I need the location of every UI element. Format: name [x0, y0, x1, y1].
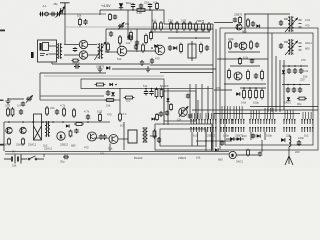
resistor R5 — [160, 21, 163, 31]
svg-text:10k: 10k — [100, 151, 105, 155]
wire stage3 emitters — [224, 83, 266, 85]
resistor R28 — [261, 89, 264, 100]
capacitor C42 — [287, 68, 291, 74]
wire x137 — [136, 29, 138, 52]
resistor R49 — [63, 107, 66, 117]
wire Q1 base — [119, 43, 121, 46]
shield box det — [164, 91, 196, 121]
svg-text:100p: 100p — [223, 133, 229, 137]
capacitor C25 — [297, 140, 301, 146]
power switch SW1 — [28, 156, 44, 160]
band switch S1 wafer 2 — [204, 119, 216, 132]
capacitor C35 — [55, 109, 59, 115]
wire band bus v1 — [271, 33, 273, 112]
resistor R34 — [105, 99, 116, 102]
wire left frame v — [3, 122, 5, 151]
diode D12 — [111, 92, 115, 96]
wire wafer4 drop 2 — [238, 106, 240, 119]
selector lamp B3 — [229, 151, 236, 158]
resistor R6 — [170, 21, 173, 31]
diode D13 — [66, 124, 69, 127]
svg-text:0.05: 0.05 — [5, 103, 11, 107]
wire band bus h3 — [250, 106, 318, 108]
transistor Q2 — [155, 45, 165, 55]
resistor R10 — [180, 43, 183, 54]
wire wafer8 drop 2 — [307, 112, 309, 119]
capacitor C47 — [298, 87, 302, 93]
wire dropper v2 — [201, 84, 203, 119]
resistor R10b — [200, 43, 203, 54]
svg-text:0.0: 0.0 — [17, 103, 21, 107]
transistor Q10 — [88, 132, 97, 141]
capacitor C22 — [254, 73, 258, 79]
transistor Q4 — [79, 51, 87, 59]
resistor R9 — [189, 21, 192, 31]
resistor R36 — [155, 88, 158, 99]
band switch S1 wafer 8 — [301, 119, 313, 132]
resistor R46 — [7, 107, 10, 117]
transistor Q11 — [109, 135, 118, 144]
wire dropper v4 — [197, 100, 199, 119]
diode D3 — [173, 46, 177, 50]
junction m3 — [151, 88, 153, 90]
capacitor C5 — [131, 3, 135, 8]
svg-text:2SB75: 2SB75 — [196, 19, 205, 23]
junction m1 — [115, 84, 117, 86]
svg-text:220: 220 — [295, 150, 300, 154]
wire Q3 out — [88, 44, 97, 46]
svg-text:100p: 100p — [253, 100, 259, 104]
resistor R23 — [261, 70, 264, 81]
speaker LS1 — [38, 40, 57, 62]
junction p4c — [299, 84, 301, 86]
tap ticks T3 antenna coil — [299, 20, 302, 27]
capacitor C9 — [109, 31, 113, 37]
shield box outer — [220, 28, 318, 150]
svg-text:1k2: 1k2 — [304, 133, 309, 137]
transformer T7 — [143, 127, 148, 143]
wire bank1 down b — [196, 132, 198, 146]
capacitor C21 — [255, 42, 259, 48]
svg-text:1k2: 1k2 — [126, 98, 131, 102]
resistor R43 — [74, 123, 84, 126]
wire IF box left — [105, 29, 107, 52]
svg-text:10k: 10k — [126, 41, 131, 45]
capacitor C36 — [74, 129, 78, 134]
wire T1 to Q3 — [64, 44, 79, 46]
wire wafer7 drop 0 — [284, 110, 286, 119]
svg-text:2SB75: 2SB75 — [96, 64, 105, 68]
svg-text:2SB22: 2SB22 — [72, 61, 81, 65]
wire bank2 down b — [210, 132, 212, 151]
svg-text:10k: 10k — [196, 155, 201, 159]
capacitor C38 — [188, 114, 192, 119]
capacitor C12 — [168, 45, 172, 51]
svg-text:25p: 25p — [54, 3, 59, 6]
capacitor C48 — [258, 152, 262, 157]
transformer T8 — [45, 121, 50, 137]
band switch S1 wafer 5 — [249, 119, 261, 132]
wire wafer2 drop 0 — [205, 113, 207, 119]
svg-text:470: 470 — [155, 56, 160, 60]
resistor R12 — [202, 22, 205, 32]
ceramic filter FL2 — [128, 130, 137, 143]
junction IF 1 — [151, 47, 153, 49]
capacitor C11 — [135, 40, 139, 46]
wire IF box bottom 1 — [150, 64, 213, 66]
capacitor C45 — [286, 87, 290, 93]
svg-text:220: 220 — [242, 134, 247, 138]
svg-text:680: 680 — [71, 143, 76, 147]
wire wafer2 drop 3 — [213, 113, 215, 119]
inductor L1 — [289, 136, 291, 147]
wire shield vertical 2 — [215, 29, 217, 147]
diode D17 — [282, 70, 285, 73]
battery BT1 — [4, 155, 27, 164]
junction y141b — [211, 140, 213, 142]
wire wafer8 drop 3 — [310, 112, 312, 119]
capacitor C15 — [140, 60, 144, 66]
wire wafer2 drop 2 — [210, 113, 212, 119]
transformer T4 RF coil — [288, 39, 294, 55]
diode D16 — [166, 98, 169, 101]
svg-text:4.7k: 4.7k — [60, 103, 66, 107]
wire y73 — [40, 72, 106, 74]
resistor R26 — [249, 89, 252, 100]
svg-text:470: 470 — [301, 58, 306, 62]
wire T2 sec to Q1 — [105, 51, 118, 53]
tuning arrow C4 — [59, 7, 65, 17]
resistor R51 — [170, 103, 173, 111]
wire speaker bottom — [49, 53, 57, 55]
connector blob — [31, 52, 34, 58]
wire y88 — [164, 88, 213, 90]
wire v128 — [127, 10, 129, 40]
stage indicator 1 — [57, 132, 65, 140]
wire wafer4 drop 0 — [233, 106, 235, 119]
junction b2 — [32, 121, 34, 123]
wire Q1 collector row — [126, 50, 156, 52]
svg-text:3V: 3V — [12, 150, 16, 154]
svg-text:10k: 10k — [77, 13, 82, 17]
wire IF box bottom 3 — [160, 72, 213, 74]
junction p4a — [287, 84, 289, 86]
wire wafer1 drop 1 — [194, 113, 196, 119]
svg-text:51k: 51k — [108, 146, 113, 150]
wire v152 — [151, 10, 153, 32]
resistor R32 — [247, 149, 250, 157]
resistor R54 — [297, 97, 307, 100]
wire wafer1 drop 2 — [196, 113, 198, 119]
resistor R19 — [229, 40, 232, 50]
svg-text:4.7k: 4.7k — [84, 109, 90, 113]
wire wafer6 drop 2 — [269, 108, 271, 119]
svg-text:0.05: 0.05 — [181, 18, 187, 22]
svg-text:BG2: BG2 — [126, 1, 132, 5]
resistor R52 — [109, 13, 112, 21]
page mark left 1 — [0, 30, 5, 32]
svg-text:10k: 10k — [177, 118, 182, 122]
svg-text:8.2k: 8.2k — [303, 69, 309, 73]
svg-text:4.7: 4.7 — [153, 0, 157, 4]
resistor R14 — [72, 59, 80, 62]
wire band bus v3 — [279, 60, 281, 112]
shield box mid outer — [155, 124, 212, 150]
wire battery bus a — [5, 151, 229, 153]
wire C5 stem — [132, 8, 134, 10]
wire wafer4 drop 1 — [236, 106, 238, 119]
svg-text:1T4: 1T4 — [168, 18, 173, 22]
svg-text:BG209: BG209 — [134, 156, 143, 160]
crystal Y1 — [26, 97, 32, 101]
capacitor C26b — [21, 102, 25, 107]
arrow Q12 — [179, 107, 188, 118]
wire wafer6 drop 0 — [264, 108, 266, 119]
wire switch up — [43, 154, 45, 157]
wire Q11 down — [109, 144, 111, 152]
capacitor C12b — [205, 45, 209, 51]
wire y141 link — [196, 140, 232, 142]
svg-text:0.01: 0.01 — [305, 18, 311, 22]
transistor Q6 — [239, 42, 247, 50]
transformer T3 antenna coil — [288, 16, 294, 32]
wire band bus h2 — [214, 113, 300, 115]
svg-text:3AG1: 3AG1 — [284, 100, 291, 104]
wire +4.5V rail — [100, 10, 164, 24]
wire padder row3 top — [282, 65, 308, 67]
svg-text:+4.5V: +4.5V — [101, 4, 111, 8]
wire wafer1 drop 0 — [191, 113, 193, 119]
resistor R16 — [142, 43, 145, 53]
resistor R50 — [73, 108, 76, 118]
svg-text:51k: 51k — [12, 163, 17, 167]
wire q row link1 — [94, 137, 100, 139]
wire dropper v0 — [189, 84, 191, 119]
junction s4a — [243, 87, 245, 89]
svg-text:8.2k: 8.2k — [193, 133, 199, 137]
band switch S1 wafer 4 — [232, 119, 244, 132]
diode D1 — [119, 3, 123, 7]
wire q row link3 — [118, 138, 128, 140]
svg-text:2SB22: 2SB22 — [178, 156, 187, 160]
junction p3a — [288, 65, 290, 67]
wire v168 — [167, 88, 169, 125]
junction a1 — [64, 13, 66, 15]
arrow C8 — [118, 23, 124, 30]
wire AGC line — [65, 26, 213, 28]
resistor R45 — [156, 113, 159, 121]
resistor R11 — [195, 22, 198, 32]
transformer T1 output — [57, 43, 63, 59]
diode D4 — [106, 66, 110, 70]
wire x120 v — [119, 88, 121, 112]
ground mid — [5, 98, 10, 104]
diode D5 — [256, 24, 259, 27]
transistor Q1 — [117, 46, 127, 56]
wire y38 det — [168, 37, 210, 39]
wire wafer6 drop 1 — [267, 108, 269, 119]
resistor R53 — [79, 18, 82, 27]
svg-text:0.02: 0.02 — [97, 109, 103, 113]
svg-text:3AG1: 3AG1 — [236, 159, 243, 163]
antenna ANT1 — [60, 3, 70, 14]
junction IF 3 — [195, 37, 197, 39]
svg-text:680: 680 — [218, 157, 223, 161]
tap ticks T4 RF coil — [299, 43, 302, 50]
resistor R48 — [46, 106, 49, 116]
wire T4 RF coil top — [284, 41, 288, 43]
band switch S1 wafer 7 — [283, 119, 295, 132]
junction IF 2 — [176, 31, 178, 33]
diode D19 — [215, 148, 218, 151]
svg-text:BG209: BG209 — [160, 84, 169, 88]
junction p4b — [293, 84, 295, 86]
resistor R3 — [145, 34, 148, 45]
capacitor C17 — [134, 44, 138, 50]
resistor R7 — [176, 21, 179, 31]
wire stage3 top — [230, 65, 260, 67]
svg-text:51k: 51k — [117, 57, 122, 61]
trimmer arrow C3 — [56, 11, 62, 18]
svg-text:0.05: 0.05 — [137, 11, 143, 15]
wire input chain — [39, 13, 65, 15]
wire wafer1 drop 3 — [199, 113, 201, 119]
transistor Q9 — [20, 127, 26, 133]
junction p3c — [300, 65, 302, 67]
capacitor C33 — [63, 155, 69, 159]
resistor R37 — [160, 88, 163, 99]
wire rail left drop — [99, 10, 101, 15]
wire wafer2 drop 1 — [208, 113, 210, 119]
ground audio — [97, 66, 102, 72]
microphone/earpiece X1 — [45, 12, 49, 16]
resistor R34b — [124, 96, 135, 99]
svg-text:2SB75: 2SB75 — [234, 12, 243, 16]
wire y100 — [40, 99, 120, 101]
capacitor C40 — [83, 19, 87, 25]
resistor R22 — [247, 70, 250, 81]
wire wafer3 drop 2 — [226, 106, 228, 119]
resistor R44 — [153, 129, 156, 139]
band switch S1 wafer 6 — [263, 119, 275, 132]
wire L1 down — [288, 147, 290, 156]
junction s4b — [249, 87, 251, 89]
svg-text:2SB22: 2SB22 — [60, 143, 69, 147]
wire x262 v — [261, 140, 263, 152]
resistor R4 — [154, 21, 157, 31]
wire stage4 feed — [214, 89, 232, 91]
wire R1 stem — [156, 9, 158, 10]
junction b0 — [8, 121, 10, 123]
wire wafer7 drop 2 — [289, 110, 291, 119]
resistor R56 — [130, 31, 133, 42]
wire antenna down — [64, 14, 66, 44]
wire wafer7 drop 1 — [287, 110, 289, 119]
resistor R15 — [107, 42, 110, 52]
junction audio 1 — [107, 51, 109, 53]
capacitor C32 — [157, 137, 161, 143]
wire lamp right — [236, 154, 258, 156]
diode D2 — [154, 44, 158, 48]
wire dropper v3 — [207, 86, 209, 119]
wire wafer3 drop 0 — [221, 106, 223, 119]
svg-text:2SA: 2SA — [144, 1, 149, 5]
wire diode row — [226, 138, 244, 140]
capacitor C16 — [150, 58, 154, 64]
resistor R21 — [228, 69, 231, 80]
capacitor C31 — [102, 134, 106, 140]
svg-text:A-1: A-1 — [43, 4, 48, 8]
junction s4c — [255, 87, 257, 89]
resistor R27 — [255, 89, 258, 100]
wire padder row4 top — [282, 84, 310, 86]
resistor R33 — [95, 83, 106, 86]
wire band bus v4 — [283, 60, 285, 110]
wire q row link2 — [106, 137, 109, 139]
svg-text:220: 220 — [50, 106, 55, 110]
svg-text:680: 680 — [305, 46, 310, 50]
wire stage2 bottom — [228, 51, 260, 53]
transistor Q7 — [234, 72, 242, 80]
junction p3b — [294, 65, 296, 67]
capacitor C44 — [299, 68, 303, 74]
wire audio bottom — [52, 63, 150, 65]
svg-text:30p: 30p — [297, 102, 302, 106]
capacitor C1 — [40, 12, 43, 16]
junction rail 2 — [149, 9, 151, 11]
wire y32 IF — [150, 31, 210, 33]
capacitor C43 — [293, 68, 297, 74]
diode D10 — [281, 138, 285, 142]
resistor R17 — [239, 16, 242, 24]
wire bank2 down a — [205, 132, 207, 151]
svg-text:470: 470 — [107, 112, 112, 116]
wire agc to stage1 — [214, 22, 233, 24]
IF can FL1 — [34, 114, 42, 140]
wire wafer3 drop 1 — [224, 106, 226, 119]
svg-text:2SA12: 2SA12 — [16, 143, 25, 147]
wire bank1 down a — [191, 132, 193, 146]
page mark left 2 — [0, 100, 4, 102]
capacitor C24 — [220, 140, 224, 146]
svg-text:220: 220 — [300, 77, 305, 81]
wire speaker top — [49, 45, 57, 47]
capacitor C23 dark — [250, 59, 254, 64]
resistor R41 — [69, 130, 72, 138]
svg-text:470: 470 — [84, 145, 89, 149]
diode D9 — [237, 137, 241, 141]
arrow Y1 — [26, 96, 33, 103]
wire band bus v0 — [267, 33, 269, 112]
capacitor C6 — [139, 4, 143, 9]
junction m2 — [145, 88, 147, 90]
capacitor C13 — [73, 47, 77, 52]
svg-text:5.6k: 5.6k — [241, 100, 247, 104]
svg-text:30p: 30p — [60, 159, 65, 163]
shield box inner — [225, 33, 313, 145]
transistor Q12 — [179, 108, 188, 117]
svg-text:470: 470 — [305, 23, 310, 27]
capacitor C37 — [165, 111, 169, 116]
capacitor C20 — [234, 42, 238, 48]
wire y96 — [40, 95, 104, 97]
wire stage4 top — [240, 87, 266, 89]
trimmer cap T3 antenna coil — [279, 20, 283, 26]
resistor R47 — [11, 107, 14, 117]
arrow T3 antenna coil — [285, 18, 298, 32]
resistor R55 — [137, 9, 145, 12]
wire wafer4 drop 3 — [241, 106, 243, 119]
